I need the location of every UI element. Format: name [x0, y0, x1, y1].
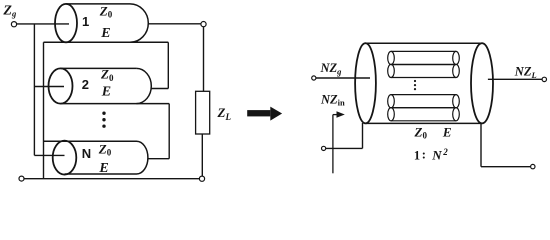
svg-text:1: 1: [414, 149, 420, 163]
svg-text:1: 1: [82, 14, 89, 29]
svg-text:E: E: [98, 161, 108, 176]
svg-text:2: 2: [82, 77, 89, 92]
svg-text:E: E: [100, 26, 110, 41]
svg-text:E: E: [101, 85, 111, 100]
svg-text:2: 2: [442, 147, 448, 157]
svg-text:N: N: [82, 146, 91, 161]
svg-text:E: E: [442, 124, 452, 139]
svg-text:N: N: [431, 148, 442, 163]
svg-text::: :: [422, 148, 426, 162]
